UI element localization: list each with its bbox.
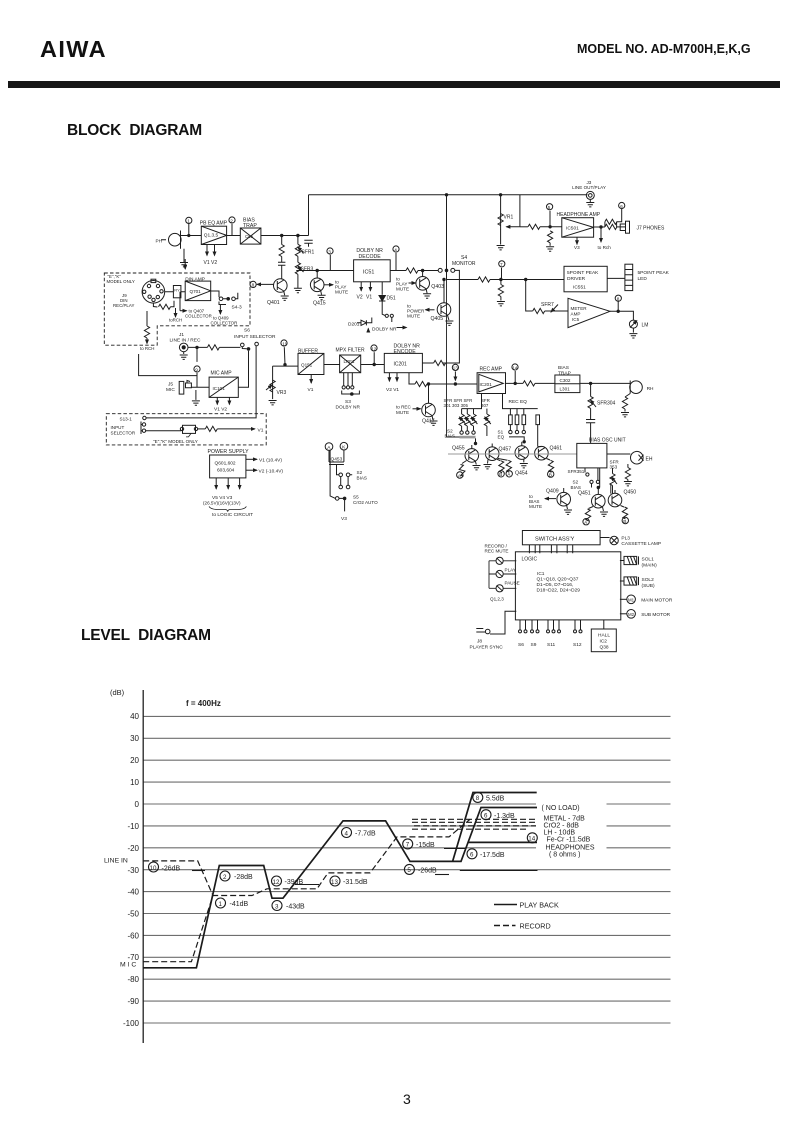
svg-text:MIC: MIC — [166, 387, 175, 393]
svg-text:IC5: IC5 — [572, 317, 580, 322]
svg-text:-20: -20 — [127, 844, 139, 853]
supply outputs — [246, 458, 284, 475]
svg-text:J1: J1 — [179, 332, 184, 338]
svg-text:VR1: VR1 — [504, 215, 514, 221]
node 8 — [615, 295, 621, 312]
switch contacts — [382, 312, 393, 322]
legend RECORD — [494, 922, 551, 931]
svg-text:RY: RY — [174, 288, 180, 293]
resistor + node A — [457, 461, 467, 480]
S13-1 labels — [111, 417, 198, 445]
svg-text:C302: C302 — [560, 378, 571, 383]
svg-text:S3: S3 — [345, 399, 351, 405]
DOLBY NR arrow label — [368, 327, 406, 333]
ground — [281, 291, 289, 300]
point 14 — [527, 833, 537, 843]
transistor Q401 — [267, 279, 287, 306]
svg-text:Q1~Q18, Q20~Q37: Q1~Q18, Q20~Q37 — [537, 577, 579, 583]
svg-text:2: 2 — [223, 874, 227, 881]
svg-text:8: 8 — [617, 297, 620, 302]
svg-text:PAUSE: PAUSE — [505, 580, 520, 585]
potentiometer SFR307 — [484, 409, 491, 436]
svg-text:METAL - 7dB: METAL - 7dB — [544, 816, 586, 823]
svg-text:603,604: 603,604 — [217, 468, 235, 474]
IC1 parts list — [537, 571, 581, 594]
node 2 — [229, 217, 235, 236]
svg-text:11: 11 — [282, 341, 287, 346]
svg-text:ENCODE: ENCODE — [394, 349, 417, 355]
svg-text:CrO2 - 8dB: CrO2 - 8dB — [544, 823, 580, 830]
svg-text:DECODE: DECODE — [359, 254, 382, 260]
point 6 -17.5dB — [467, 849, 505, 859]
Q1,2,3 bus — [489, 561, 504, 602]
svg-text:V1: V1 — [258, 427, 264, 433]
svg-text:AMP: AMP — [571, 312, 581, 317]
svg-text:-7.7dB: -7.7dB — [355, 831, 376, 838]
svg-text:20: 20 — [130, 756, 139, 765]
svg-text:-10: -10 — [127, 822, 139, 831]
svg-text:-50: -50 — [127, 910, 139, 919]
node 13 — [452, 364, 458, 380]
svg-text:toRCH: toRCH — [169, 318, 182, 323]
svg-text:MONITOR: MONITOR — [452, 261, 476, 267]
svg-text:REC EQ: REC EQ — [509, 399, 528, 405]
wire play bus — [296, 270, 353, 272]
transistor Q455 — [452, 445, 479, 462]
svg-text:8: 8 — [252, 283, 255, 288]
junction — [281, 234, 283, 236]
switch assy box — [522, 531, 600, 545]
svg-text:D51: D51 — [387, 296, 396, 302]
svg-text:Q601,602: Q601,602 — [215, 461, 236, 467]
svg-text:SFR3: SFR3 — [301, 267, 314, 273]
svg-text:5: 5 — [548, 205, 551, 210]
wire monitor output — [447, 277, 565, 282]
resistor to ground — [546, 231, 554, 251]
potentiometer SFR305 — [471, 409, 478, 435]
to BIAS MUTE label — [529, 494, 556, 509]
svg-text:V2: V2 — [357, 295, 363, 301]
bias trap C65 — [240, 218, 261, 245]
svg-text:9: 9 — [195, 367, 198, 372]
svg-text:to RCH: to RCH — [140, 346, 154, 351]
junction — [297, 234, 299, 236]
resistor under EH — [624, 464, 632, 486]
svg-text:-43dB: -43dB — [286, 904, 305, 911]
play input — [489, 567, 516, 577]
diode D51 — [379, 282, 396, 312]
transistor Q461 — [535, 446, 563, 461]
svg-text:14: 14 — [528, 836, 535, 843]
svg-text:IC2: IC2 — [600, 639, 608, 645]
wire with resistor to RCH — [140, 311, 154, 351]
svg-text:BIAS OSC UNIT: BIAS OSC UNIT — [589, 438, 626, 444]
junction — [499, 194, 501, 196]
resistor + node A — [498, 459, 512, 479]
svg-text:IC51: IC51 — [363, 270, 374, 276]
pins V2 V1 — [357, 282, 373, 301]
svg-text:10: 10 — [150, 865, 157, 872]
svg-text:LM: LM — [642, 323, 649, 329]
ground — [294, 274, 302, 292]
wire rec amp lower pins — [462, 394, 538, 409]
ground — [473, 461, 481, 470]
svg-text:Q403: Q403 — [431, 284, 444, 290]
svg-text:-90: -90 — [127, 997, 139, 1006]
svg-text:POWER SUPPLY: POWER SUPPLY — [208, 449, 250, 455]
svg-text:IC201: IC201 — [394, 362, 408, 368]
node 6 — [617, 202, 625, 221]
node 5 — [547, 204, 553, 227]
svg-text:MAIN MOTOR: MAIN MOTOR — [641, 598, 673, 604]
svg-text:EQ: EQ — [498, 435, 505, 440]
IC hall Q38 — [591, 620, 616, 652]
svg-text:-100: -100 — [123, 1019, 140, 1028]
pins V2 V1 — [386, 373, 399, 393]
svg-text:HALL: HALL — [598, 633, 610, 639]
svg-text:RH: RH — [647, 386, 654, 392]
connector J9 DIN REC/PLAY — [142, 279, 165, 303]
resistor + node B — [497, 459, 505, 478]
svg-text:MPX FILTER: MPX FILTER — [336, 348, 365, 354]
svg-text:MUTE: MUTE — [396, 410, 409, 415]
svg-text:S6: S6 — [244, 328, 250, 334]
axis labels — [123, 712, 140, 1028]
svg-text:7: 7 — [500, 262, 503, 267]
bias trap C302 L301 — [555, 365, 580, 393]
svg-text:EH: EH — [646, 457, 653, 463]
wire — [324, 364, 340, 366]
svg-text:5POINT PEAK: 5POINT PEAK — [638, 270, 670, 276]
resistor — [279, 236, 284, 263]
bias osc unit box — [577, 438, 626, 468]
transistor Q403 — [416, 271, 444, 291]
wire bias bus — [447, 280, 460, 438]
svg-text:4: 4 — [345, 830, 349, 837]
connector J1 LINE IN/REC — [170, 332, 201, 344]
record head RH — [630, 381, 654, 394]
motor M2 SUB MOTOR — [620, 610, 671, 619]
REC EQ network — [498, 399, 540, 447]
svg-text:Q461: Q461 — [550, 446, 563, 452]
svg-text:-17.5dB: -17.5dB — [480, 852, 505, 859]
junction — [445, 194, 447, 196]
wire record bus — [409, 373, 477, 387]
svg-text:6: 6 — [620, 204, 623, 209]
transistor Q409 — [546, 488, 572, 514]
page number — [403, 1091, 411, 1107]
capacitor — [304, 240, 312, 247]
record trace dashed — [143, 819, 536, 961]
wire to record select — [422, 270, 459, 365]
svg-text:4: 4 — [394, 247, 397, 252]
svg-text:Q401: Q401 — [267, 300, 280, 306]
wire to record head — [580, 382, 630, 384]
connector J5 MIC — [166, 381, 209, 406]
point 13 -31.5dB — [330, 876, 368, 886]
svg-text:(26.5V)(16V)(13V): (26.5V)(16V)(13V) — [203, 501, 241, 506]
resistor under RH — [621, 394, 630, 417]
svg-text:SWITCH ASS'Y: SWITCH ASS'Y — [535, 537, 575, 543]
transistor Q454 — [515, 442, 529, 477]
svg-text:LED: LED — [638, 276, 648, 282]
svg-text:CASSETTE LAMP: CASSETTE LAMP — [621, 541, 661, 547]
node 14 — [512, 364, 518, 385]
potentiometer SFR304 — [588, 383, 616, 408]
svg-text:Q415: Q415 — [313, 301, 326, 307]
svg-text:D201: D201 — [348, 322, 360, 328]
wire rec amp out — [506, 381, 555, 386]
resistor + node A — [583, 507, 593, 527]
svg-text:(MAIN): (MAIN) — [642, 563, 658, 569]
record/rec mute input — [485, 544, 517, 565]
svg-text:M2: M2 — [628, 612, 635, 617]
switch S4-3 — [211, 291, 242, 311]
svg-text:LPF1: LPF1 — [344, 359, 355, 364]
svg-text:S9: S9 — [531, 642, 537, 648]
AIWA logo — [40, 36, 107, 63]
svg-text:Q151: Q151 — [301, 363, 313, 368]
svg-text:V1: V1 — [308, 387, 314, 393]
model number — [577, 42, 751, 56]
svg-text:IC551: IC551 — [573, 285, 586, 291]
svg-text:LINE IN / REC: LINE IN / REC — [170, 338, 201, 344]
svg-text:J5: J5 — [168, 382, 173, 388]
svg-text:-60: -60 — [127, 932, 139, 941]
svg-text:S4-3: S4-3 — [232, 305, 242, 311]
svg-text:LINE IN: LINE IN — [104, 858, 128, 865]
J9 label — [113, 293, 134, 308]
svg-text:SFR7: SFR7 — [541, 302, 554, 308]
to REC MUTE label — [396, 405, 421, 415]
LEVEL DIAGRAM heading — [81, 627, 211, 645]
svg-text:HEADPHONES: HEADPHONES — [546, 845, 595, 852]
svg-text:MUTE: MUTE — [407, 314, 420, 319]
resistor — [153, 301, 174, 310]
to Q407 COLLECTOR label — [180, 292, 212, 319]
IC U201 DOLBY NR ENCODE — [384, 344, 422, 373]
MPX filter LPF1 — [336, 348, 365, 373]
svg-text:353: 353 — [610, 465, 618, 470]
pin V1 — [308, 375, 314, 394]
svg-text:V1 (10.4V): V1 (10.4V) — [259, 458, 282, 464]
svg-text:-31.5dB: -31.5dB — [343, 879, 368, 886]
svg-text:13: 13 — [453, 366, 459, 371]
svg-text:5: 5 — [407, 867, 411, 874]
point 2 -28dB — [220, 871, 253, 881]
capacitor — [594, 222, 617, 227]
BLOCK DIAGRAM heading — [67, 122, 202, 140]
svg-text:VR3: VR3 — [277, 390, 287, 396]
transistor Q405 — [431, 278, 451, 322]
svg-text:3: 3 — [328, 249, 331, 254]
svg-text:30: 30 — [130, 734, 139, 743]
svg-text:8: 8 — [476, 795, 480, 802]
svg-text:V3: V3 — [574, 245, 580, 250]
svg-text:-26dB: -26dB — [418, 868, 437, 875]
ground — [484, 460, 492, 469]
wire — [227, 235, 241, 237]
svg-text:3: 3 — [275, 903, 279, 910]
op-amp U501 HEADPHONE AMP — [557, 212, 601, 237]
svg-text:14: 14 — [512, 365, 518, 370]
svg-text:D1~D5, D7~D16,: D1~D5, D7~D16, — [537, 582, 574, 588]
point 6 -1.3dB — [481, 810, 515, 820]
svg-text:J8: J8 — [477, 639, 482, 645]
SFR351 + S2 BIAS contacts — [568, 468, 600, 490]
svg-text:PH: PH — [156, 239, 163, 244]
dashed box S13-1 — [106, 414, 266, 445]
svg-text:IC201: IC201 — [480, 382, 493, 387]
wire — [188, 345, 240, 350]
pins V3 / to Rch — [574, 227, 611, 250]
supply pins — [203, 478, 253, 518]
legend PLAY BACK — [494, 901, 559, 910]
resistor to ground — [497, 280, 505, 306]
svg-text:SFR351: SFR351 — [568, 469, 585, 474]
svg-text:BIAS: BIAS — [558, 365, 569, 371]
switch S5 CrO2 AUTO — [330, 450, 378, 522]
svg-text:MUTE: MUTE — [396, 287, 409, 292]
potentiometer SFR303 — [465, 409, 472, 435]
svg-text:V1 V2: V1 V2 — [204, 260, 218, 266]
meter amp feed — [526, 280, 568, 314]
switch assy pins — [529, 545, 572, 554]
svg-text:5.5dB: 5.5dB — [486, 796, 505, 803]
svg-text:( 8 ohms ): ( 8 ohms ) — [549, 852, 581, 859]
ground — [445, 315, 453, 325]
point 4 -7.7dB — [342, 828, 376, 838]
svg-text:PL3: PL3 — [621, 535, 630, 541]
svg-text:Q450: Q450 — [624, 490, 637, 496]
transistor Q457 — [485, 444, 511, 461]
svg-text:-15dB: -15dB — [416, 842, 435, 849]
svg-text:B: B — [623, 519, 626, 525]
svg-text:MIC AMP: MIC AMP — [211, 371, 233, 377]
J1 jack — [179, 343, 188, 359]
ground — [600, 507, 608, 516]
capacitor — [278, 262, 285, 279]
svg-text:Fe-Cr -11.5dB: Fe-Cr -11.5dB — [547, 837, 591, 844]
svg-text:Q701: Q701 — [190, 289, 202, 294]
headphone feed wire — [520, 224, 562, 229]
svg-text:SUB MOTOR: SUB MOTOR — [641, 612, 670, 618]
svg-text:(dB): (dB) — [110, 688, 125, 697]
svg-text:-40: -40 — [127, 888, 139, 897]
wire top bus — [309, 194, 588, 196]
point 12 -39dB — [272, 876, 304, 886]
svg-text:DRIVER: DRIVER — [567, 276, 586, 282]
svg-text:IC101: IC101 — [213, 386, 226, 391]
E K MODEL ONLY label — [107, 274, 135, 284]
svg-text:-80: -80 — [127, 975, 139, 984]
ground — [318, 290, 326, 299]
svg-text:BIAS: BIAS — [357, 475, 367, 480]
svg-text:Q409: Q409 — [546, 489, 559, 495]
svg-text:SFR304: SFR304 — [597, 401, 616, 407]
potentiometer SFR301 — [459, 409, 466, 435]
switch S2 BIAS bar — [445, 429, 477, 445]
pause input — [489, 580, 520, 592]
svg-text:-41dB: -41dB — [230, 901, 249, 908]
point 8 5.5dB — [473, 792, 505, 802]
svg-text:10: 10 — [130, 778, 139, 787]
point 5 -26dB — [404, 864, 437, 874]
svg-text:V1 V2: V1 V2 — [214, 407, 227, 413]
svg-text:RECORD: RECORD — [520, 922, 551, 931]
svg-text:DOLBY NR: DOLBY NR — [372, 327, 397, 333]
transistor Q451 — [578, 468, 605, 508]
svg-text:LINE OUT/PLAY: LINE OUT/PLAY — [572, 185, 606, 190]
svg-text:INPUT: INPUT — [111, 425, 125, 430]
to POWER MUTE label — [407, 304, 435, 319]
capacitor Q453 — [329, 450, 344, 473]
svg-text:Q38: Q38 — [600, 645, 609, 651]
switch S2 BIAS — [337, 470, 367, 489]
svg-text:L301: L301 — [560, 387, 571, 392]
resistor — [600, 219, 626, 229]
svg-text:to LOGIC CIRCUIT: to LOGIC CIRCUIT — [212, 512, 253, 518]
mic amp U101 — [209, 371, 238, 398]
node 8 — [250, 281, 274, 287]
svg-text:Q451: Q451 — [578, 491, 591, 497]
erase head EH — [607, 451, 653, 464]
dashed box E,K MODEL ONLY — [104, 273, 250, 345]
svg-text:LH - 10dB: LH - 10dB — [544, 830, 576, 837]
wire decode out — [390, 268, 438, 273]
svg-text:-26dB: -26dB — [162, 866, 181, 873]
connector J7 PHONES — [620, 221, 665, 233]
meter LM — [610, 311, 648, 338]
op-amp U5 METER AMP — [568, 298, 610, 327]
SFR resistor bank labels — [444, 398, 490, 408]
svg-text:"E","K" MODEL ONLY: "E","K" MODEL ONLY — [153, 439, 198, 444]
svg-text:BIAS: BIAS — [571, 485, 581, 490]
S13 wiring — [141, 346, 256, 434]
transistor Q450 — [608, 484, 636, 507]
Y axis — [142, 690, 144, 1043]
svg-text:SOL2: SOL2 — [642, 577, 655, 583]
to Q409 COLLECTOR label — [211, 305, 238, 326]
svg-text:to Rch: to Rch — [598, 245, 612, 250]
svg-text:DOLBY NR: DOLBY NR — [336, 405, 361, 411]
svg-text:-30: -30 — [127, 866, 139, 875]
svg-text:COLLECTOR: COLLECTOR — [211, 321, 238, 326]
svg-text:S11: S11 — [547, 642, 556, 648]
svg-text:C65: C65 — [245, 234, 254, 239]
svg-text:-39dB: -39dB — [285, 879, 304, 886]
IC U51 DOLBY NR DECODE — [354, 248, 391, 282]
svg-text:Q1,2,3: Q1,2,3 — [490, 597, 504, 602]
op-amp REC AMP IC201 — [477, 367, 505, 394]
connector J3 LINE OUT/PLAY — [572, 180, 606, 207]
node 1 — [186, 217, 192, 236]
svg-text:-28dB: -28dB — [234, 874, 253, 881]
wire riser to top bus — [308, 195, 310, 236]
svg-text:2: 2 — [230, 218, 233, 223]
svg-text:0: 0 — [135, 800, 140, 809]
svg-text:307: 307 — [481, 403, 489, 408]
svg-text:13: 13 — [331, 879, 338, 886]
svg-text:S2: S2 — [357, 470, 363, 475]
svg-text:INPUT SELECTOR: INPUT SELECTOR — [234, 334, 276, 340]
switch box — [180, 425, 263, 437]
wire to bias osc — [448, 453, 577, 455]
logic IC1 box — [515, 552, 620, 620]
wire mic to selector — [238, 351, 248, 388]
node A — [325, 443, 333, 451]
pins V1 V2 — [204, 245, 218, 267]
